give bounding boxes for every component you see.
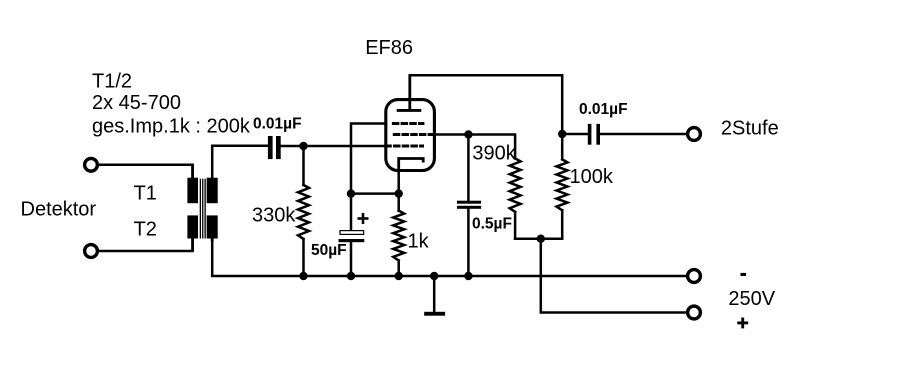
svg-text:T1/2: T1/2 xyxy=(92,71,132,93)
svg-text:1k: 1k xyxy=(408,231,430,253)
svg-text:100k: 100k xyxy=(570,166,614,188)
svg-text:2x 45-700: 2x 45-700 xyxy=(92,92,181,114)
svg-text:330k: 330k xyxy=(252,205,296,227)
svg-text:50µF: 50µF xyxy=(311,242,347,259)
svg-text:2Stufe: 2Stufe xyxy=(721,118,779,140)
svg-text:EF86: EF86 xyxy=(365,37,413,59)
svg-text:Detektor: Detektor xyxy=(21,199,97,221)
svg-text:250V: 250V xyxy=(728,288,775,310)
svg-text:390k: 390k xyxy=(472,142,516,164)
svg-text:T2: T2 xyxy=(134,218,157,240)
svg-text:0.01µF: 0.01µF xyxy=(579,101,628,118)
svg-text:ges.Imp.1k : 200k: ges.Imp.1k : 200k xyxy=(92,116,251,138)
svg-text:0.01µF: 0.01µF xyxy=(253,116,302,133)
svg-text:T1: T1 xyxy=(134,183,157,205)
svg-text:0.5µF: 0.5µF xyxy=(472,216,512,233)
